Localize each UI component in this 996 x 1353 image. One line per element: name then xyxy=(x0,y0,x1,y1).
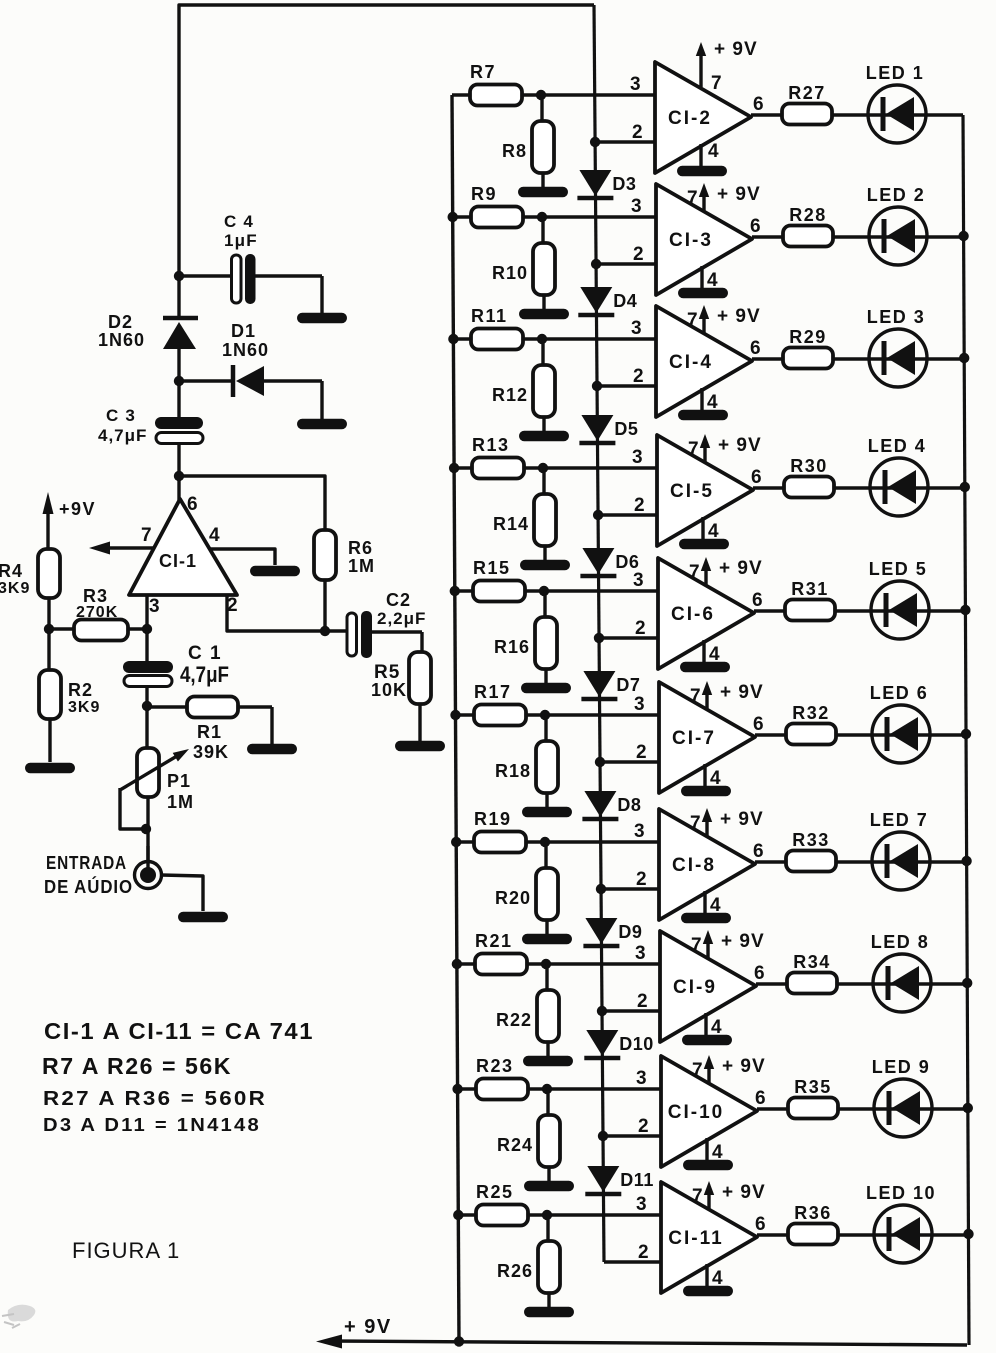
svg-text:R27 A R36 = 560R: R27 A R36 = 560R xyxy=(43,1088,267,1110)
CI-5 pin labels xyxy=(632,439,762,542)
svg-text:6: 6 xyxy=(755,1088,766,1109)
svg-text:7: 7 xyxy=(141,525,152,546)
CI-4 pin labels xyxy=(631,310,761,413)
ground (CI-11 pin 4) xyxy=(683,1286,733,1297)
svg-text:+ 9V: + 9V xyxy=(717,306,761,327)
ground (CI-8 pin 4) xyxy=(681,913,731,924)
CI-1 pin 7 arrow wire xyxy=(89,542,154,555)
resistor R22 xyxy=(496,964,559,1057)
node: R6 / pin2 junction xyxy=(320,626,330,636)
LED D6 LED 6 xyxy=(870,683,930,763)
svg-text:1M: 1M xyxy=(167,792,194,812)
svg-text:7: 7 xyxy=(687,188,698,209)
wire: output net row 10 xyxy=(757,1233,969,1236)
wire xyxy=(177,276,180,316)
ground (CI-6 pin 4) xyxy=(680,662,730,673)
wire: output net row 4 xyxy=(753,486,965,489)
svg-text:R14: R14 xyxy=(493,514,529,534)
wire: diode chain line xyxy=(594,5,604,1262)
diode D11 xyxy=(585,1166,654,1194)
wire: pin 2 net row 1 xyxy=(595,140,655,143)
svg-text:+ 9V: + 9V xyxy=(719,558,763,579)
node: right bus junction row 4 xyxy=(960,482,970,492)
wire: pin 4 stem row 2 xyxy=(700,266,703,288)
+9V arrow (pin 7) row 4 xyxy=(700,434,762,463)
LED D2 LED 2 xyxy=(867,185,927,265)
LED D4 LED 4 xyxy=(868,436,928,516)
svg-text:+ 9V: + 9V xyxy=(720,682,764,703)
node: bus tap row 3 xyxy=(448,334,458,344)
svg-text:3K9: 3K9 xyxy=(68,699,100,716)
svg-text:10K: 10K xyxy=(371,680,407,700)
node: chain junction row 4 xyxy=(593,510,603,520)
svg-text:R15: R15 xyxy=(473,558,511,578)
LED D10 LED 10 xyxy=(866,1183,936,1263)
ground (R16) xyxy=(521,683,571,694)
CI-3 pin labels xyxy=(631,188,761,291)
node: divider tap row 2 xyxy=(537,212,547,222)
ground (R24) xyxy=(524,1181,574,1192)
op-amp U4 CI-4 xyxy=(656,306,752,417)
CI-1 pin labels xyxy=(141,494,238,617)
svg-text:R7 A R26 = 56K: R7 A R26 = 56K xyxy=(42,1053,232,1079)
svg-text:D9: D9 xyxy=(618,922,642,942)
svg-text:R18: R18 xyxy=(495,761,531,781)
wire: pin 3 net row 10 xyxy=(458,1213,661,1216)
resistor R33 xyxy=(786,830,836,872)
svg-text:+ 9V: + 9V xyxy=(722,1056,766,1077)
svg-text:2: 2 xyxy=(638,1116,649,1137)
ground (D1) xyxy=(297,419,347,430)
wire: pin 4 stem row 8 xyxy=(704,1013,707,1035)
svg-text:R11: R11 xyxy=(471,306,508,326)
svg-text:1μF: 1μF xyxy=(224,231,258,250)
op-amp U7 CI-7 xyxy=(659,682,755,793)
node: chain junction row 9 xyxy=(598,1131,608,1141)
wire: pin 4 stem row 3 xyxy=(700,388,703,410)
svg-text:2: 2 xyxy=(636,869,647,890)
svg-text:1M: 1M xyxy=(348,556,375,576)
wire xyxy=(177,349,180,381)
op-amp U1 CI-1 xyxy=(129,499,237,595)
node: chain junction row 5 xyxy=(594,633,604,643)
ground (CI-2 pin 4) xyxy=(677,166,727,177)
svg-text:3: 3 xyxy=(635,943,646,964)
resistor R9 xyxy=(471,184,523,228)
svg-text:R34: R34 xyxy=(793,952,831,972)
svg-text:R21: R21 xyxy=(475,931,513,951)
wire: pin 2 net row 5 xyxy=(599,636,658,639)
svg-text:3: 3 xyxy=(633,570,644,591)
CI-8 pin labels xyxy=(634,813,764,916)
resistor R10 xyxy=(492,217,555,310)
diode D10 xyxy=(584,1030,654,1058)
svg-text:6: 6 xyxy=(750,216,761,237)
resistor R2 xyxy=(39,629,100,762)
svg-text:R25: R25 xyxy=(476,1182,514,1202)
resistor R4 xyxy=(0,549,60,629)
svg-text:6: 6 xyxy=(754,963,765,984)
wire: pin 2 net row 9 xyxy=(603,1134,661,1137)
svg-text:7: 7 xyxy=(690,813,701,834)
wire: feedback to R6 xyxy=(179,476,325,531)
svg-text:7: 7 xyxy=(692,1186,703,1207)
resistor R13 xyxy=(472,435,524,479)
resistor R1 xyxy=(147,697,272,763)
diode D8 xyxy=(582,791,641,819)
node: right bus junction row 8 xyxy=(962,978,972,988)
svg-text:2: 2 xyxy=(633,244,644,265)
ground (CI-7 pin 4) xyxy=(681,786,731,797)
svg-text:CI-6: CI-6 xyxy=(671,604,715,625)
wire: pin 4 stem row 5 xyxy=(702,640,705,662)
wire: pin 2 net row 8 xyxy=(602,1009,660,1012)
wire: pin 3 net row 2 xyxy=(453,215,656,218)
node: C1/R1/P1 junction xyxy=(142,701,152,711)
node: divider tap row 4 xyxy=(538,463,548,473)
svg-text:R17: R17 xyxy=(474,682,512,702)
svg-text:R3: R3 xyxy=(83,586,108,606)
resistor R36 xyxy=(788,1203,838,1245)
wire: jack to ground xyxy=(161,875,203,911)
svg-text:4: 4 xyxy=(708,141,719,162)
resistor R28 xyxy=(783,205,833,247)
wire: output net row 6 xyxy=(755,733,966,736)
resistor R34 xyxy=(787,952,837,994)
diode D6 xyxy=(580,548,639,576)
resistor R16 xyxy=(494,591,557,684)
svg-text:CI-11: CI-11 xyxy=(668,1228,723,1249)
diode D2 xyxy=(98,312,198,350)
+9V arrow (pin 7) row 3 xyxy=(699,305,761,334)
LED D1 LED 1 xyxy=(866,63,926,143)
svg-text:7: 7 xyxy=(691,935,702,956)
ground (R14) xyxy=(520,560,570,571)
svg-text:CI-9: CI-9 xyxy=(673,977,717,998)
wire: pin 2 net row 4 xyxy=(598,513,657,516)
ground (R5) xyxy=(395,741,445,752)
node: bus tap row 10 xyxy=(453,1210,463,1220)
wire: pin 3 net row 4 xyxy=(454,466,657,469)
LED D5 LED 5 xyxy=(869,559,929,639)
svg-text:D8: D8 xyxy=(617,795,641,815)
ground (R2) xyxy=(25,763,75,774)
node: right bus junction row 10 xyxy=(963,1229,973,1239)
svg-text:R8: R8 xyxy=(502,141,527,161)
wire: pin 4 stem row 7 xyxy=(703,891,706,913)
node: divider tap row 3 xyxy=(537,334,547,344)
op-amp U6 CI-6 xyxy=(658,558,754,669)
svg-text:R27: R27 xyxy=(788,83,826,103)
resistor R32 xyxy=(786,703,836,745)
svg-text:R13: R13 xyxy=(472,435,510,455)
ground (CI-3 pin 4) xyxy=(678,288,728,299)
svg-text:FIGURA 1: FIGURA 1 xyxy=(72,1238,180,1263)
wire: pin 2 net row 2 xyxy=(596,262,656,265)
wire: CI-1 pin 4 xyxy=(210,549,275,565)
wire: pin 3 net row 5 xyxy=(455,589,658,592)
node: right bus junction row 5 xyxy=(960,605,970,615)
svg-text:R12: R12 xyxy=(492,385,528,405)
svg-text:LED 5: LED 5 xyxy=(869,559,928,579)
svg-text:6: 6 xyxy=(753,94,764,115)
wire: pin 4 stem row 1 xyxy=(699,144,702,166)
svg-text:R32: R32 xyxy=(792,703,830,723)
node: divider tap row 10 xyxy=(542,1210,552,1220)
svg-text:CI-1 A CI-11 = CA 741: CI-1 A CI-11 = CA 741 xyxy=(44,1018,314,1044)
wire: CI-1 pin 2 stem xyxy=(227,595,347,631)
CI-6 pin labels xyxy=(633,562,763,665)
svg-text:7: 7 xyxy=(711,73,722,94)
node: divider tap row 7 xyxy=(540,837,550,847)
svg-text:3: 3 xyxy=(149,596,160,617)
svg-text:R29: R29 xyxy=(789,327,827,347)
op-amp U11 CI-11 xyxy=(661,1182,757,1293)
CI-10 pin labels xyxy=(636,1060,766,1163)
resistor R27 xyxy=(782,83,832,125)
svg-text:R22: R22 xyxy=(496,1010,532,1030)
wire: output net row 8 xyxy=(756,982,967,985)
diode D7 xyxy=(581,671,640,699)
wire: CI-1 pin 3 stem xyxy=(145,595,148,629)
op-amp U2 CI-2 xyxy=(655,62,751,173)
svg-text:2: 2 xyxy=(227,595,238,616)
svg-text:C2: C2 xyxy=(386,590,411,610)
+9V bottom arrow xyxy=(316,1316,392,1349)
node: chain junction row 8 xyxy=(597,1006,607,1016)
node: P1 wiper junction xyxy=(141,824,151,834)
diode D3 xyxy=(577,170,636,198)
resistor R7 xyxy=(470,62,522,106)
wire: bottom +9V rail xyxy=(330,1341,967,1345)
wire: output net row 3 xyxy=(752,357,964,360)
LED D8 LED 8 xyxy=(871,932,931,1012)
ground (CI-5 pin 4) xyxy=(679,539,729,550)
svg-text:CI-3: CI-3 xyxy=(669,230,713,251)
node: C4 branch junction xyxy=(174,271,184,281)
ground (CI-4 pin 4) xyxy=(678,410,728,421)
svg-text:1N60: 1N60 xyxy=(98,330,145,350)
svg-text:+ 9V: + 9V xyxy=(722,1182,766,1203)
svg-text:3: 3 xyxy=(630,74,641,95)
node: chain junction row 2 xyxy=(591,259,601,269)
svg-text:ENTRADA: ENTRADA xyxy=(46,853,127,873)
svg-text:CI-5: CI-5 xyxy=(670,481,714,502)
wire: output net row 2 xyxy=(752,235,964,238)
ground (CI-10 pin 4) xyxy=(683,1160,733,1171)
node: D1 branch junction xyxy=(174,376,184,386)
potentiometer P1 xyxy=(120,706,194,862)
node: chain junction row 3 xyxy=(592,381,602,391)
wire: LED return bus (right) xyxy=(963,115,969,1345)
ground (R20) xyxy=(522,934,572,945)
svg-text:R30: R30 xyxy=(790,456,828,476)
svg-text:270K: 270K xyxy=(76,604,118,621)
svg-text:C 4: C 4 xyxy=(224,212,254,231)
svg-text:3: 3 xyxy=(632,447,643,468)
node: right bus junction row 3 xyxy=(959,353,969,363)
resistor R30 xyxy=(784,456,834,498)
svg-text:7: 7 xyxy=(687,310,698,331)
wire: pin 2 net row 6 xyxy=(600,760,659,763)
wire: output net row 5 xyxy=(754,609,965,612)
svg-text:R26: R26 xyxy=(497,1261,533,1281)
svg-text:R24: R24 xyxy=(497,1135,533,1155)
capacitor C4 xyxy=(179,212,322,313)
svg-text:CI-1: CI-1 xyxy=(159,551,197,571)
resistor R18 xyxy=(495,715,558,808)
svg-text:4,7μF: 4,7μF xyxy=(98,426,147,445)
node: pin3 junction xyxy=(142,624,152,634)
ground (R26) xyxy=(524,1307,574,1318)
resistor R8 xyxy=(502,95,554,188)
node: divider tap row 8 xyxy=(541,959,551,969)
op-amp U10 CI-10 xyxy=(661,1056,757,1167)
svg-text:39K: 39K xyxy=(193,742,229,762)
svg-text:C 1: C 1 xyxy=(188,643,222,664)
node: CI-1 output junction xyxy=(174,471,184,481)
resistor R17 xyxy=(474,682,526,726)
svg-text:LED 8: LED 8 xyxy=(871,932,930,952)
op-amp U5 CI-5 xyxy=(657,435,753,546)
resistor R12 xyxy=(492,339,555,432)
svg-text:LED 7: LED 7 xyxy=(870,810,929,830)
input jack ENTRADA DE AUDIO xyxy=(44,846,162,897)
svg-text:+ 9V: + 9V xyxy=(721,931,765,952)
svg-text:C 3: C 3 xyxy=(106,406,136,425)
svg-text:D3: D3 xyxy=(612,174,636,194)
+9V arrow (pin 7) row 1 xyxy=(696,39,758,87)
resistor R11 xyxy=(471,306,523,350)
resistor R5 xyxy=(371,652,431,741)
svg-text:6: 6 xyxy=(752,590,763,611)
resistor R35 xyxy=(788,1077,838,1119)
svg-text:2: 2 xyxy=(636,742,647,763)
node: chain junction row 1 xyxy=(590,137,600,147)
wire: output net row 7 xyxy=(755,860,967,863)
wire: pin 2 net row 10 xyxy=(604,1260,661,1263)
+9V arrow (pin 7) row 5 xyxy=(701,557,763,586)
svg-text:D5: D5 xyxy=(614,419,638,439)
wire: pin 3 net row 7 xyxy=(456,840,659,843)
+9V arrow (pin 7) row 10 xyxy=(704,1181,766,1210)
resistor R15 xyxy=(473,558,525,602)
svg-text:2: 2 xyxy=(633,366,644,387)
svg-text:R33: R33 xyxy=(792,830,830,850)
svg-text:R4: R4 xyxy=(0,561,23,581)
svg-text:LED 3: LED 3 xyxy=(867,307,926,327)
svg-text:LED 1: LED 1 xyxy=(866,63,925,83)
svg-text:6: 6 xyxy=(187,494,198,515)
svg-text:+ 9V: + 9V xyxy=(717,184,761,205)
svg-text:R19: R19 xyxy=(474,809,512,829)
svg-text:D2: D2 xyxy=(108,312,133,332)
svg-text:3: 3 xyxy=(634,821,645,842)
svg-text:D6: D6 xyxy=(615,552,639,572)
node: bus tap row 7 xyxy=(451,837,461,847)
svg-text:LED 9: LED 9 xyxy=(872,1057,931,1077)
node: bus tap row 9 xyxy=(452,1084,462,1094)
+9V arrow (pin 7) row 7 xyxy=(702,808,764,837)
node: bus tap row 5 xyxy=(450,586,460,596)
svg-text:LED 2: LED 2 xyxy=(867,185,926,205)
node: bus tap row 8 xyxy=(452,959,462,969)
capacitor C1 xyxy=(123,629,229,706)
svg-text:3: 3 xyxy=(631,196,642,217)
+9V arrow (pin 7) row 9 xyxy=(704,1055,766,1084)
wire: pin 2 net row 3 xyxy=(597,384,656,387)
node: divider tap row 6 xyxy=(540,710,550,720)
ground (R18) xyxy=(522,807,572,818)
CI-2 pin labels xyxy=(630,73,764,162)
svg-text:R7: R7 xyxy=(470,62,496,82)
svg-text:CI-4: CI-4 xyxy=(669,352,713,373)
svg-text:6: 6 xyxy=(750,338,761,359)
diode D4 xyxy=(578,287,637,315)
resistor R19 xyxy=(474,809,526,853)
node: bus tap row 2 xyxy=(448,212,458,222)
svg-text:+ 9V: + 9V xyxy=(714,39,758,60)
wire: pin 4 stem row 4 xyxy=(701,517,704,539)
ground (C4) xyxy=(297,313,347,324)
wire xyxy=(177,381,180,417)
svg-text:6: 6 xyxy=(755,1214,766,1235)
node: divider tap row 9 xyxy=(542,1084,552,1094)
resistor R23 xyxy=(476,1056,528,1100)
svg-text:6: 6 xyxy=(753,714,764,735)
wire: pin 4 stem row 9 xyxy=(705,1138,708,1160)
svg-text:+9V: +9V xyxy=(59,499,96,519)
svg-text:D11: D11 xyxy=(620,1170,654,1190)
op-amp U3 CI-3 xyxy=(656,184,752,295)
svg-text:3: 3 xyxy=(634,694,645,715)
+9V arrow (pin 7) row 6 xyxy=(702,681,764,710)
wire: +9V ladder bus (left) xyxy=(452,95,459,1342)
diode D5 xyxy=(579,415,638,443)
ground (R1) xyxy=(247,744,297,755)
resistor R31 xyxy=(785,579,835,621)
+9V arrow (pin 7) row 2 xyxy=(699,183,761,212)
node: chain junction row 7 xyxy=(596,884,606,894)
wire: pin 3 net row 6 xyxy=(456,713,660,716)
svg-text:2: 2 xyxy=(635,618,646,639)
node: right bus junction row 7 xyxy=(961,856,971,866)
svg-text:4,7μF: 4,7μF xyxy=(180,662,229,687)
+9V supply arrow (R4) xyxy=(43,492,97,549)
node: bus tap row 4 xyxy=(449,463,459,473)
resistor R25 xyxy=(476,1182,528,1226)
svg-text:R28: R28 xyxy=(789,205,827,225)
wire: output net row 1 xyxy=(751,113,963,116)
resistor R20 xyxy=(495,842,558,935)
svg-text:6: 6 xyxy=(753,841,764,862)
wire: pin 3 net row 3 xyxy=(453,337,656,340)
svg-text:CI-10: CI-10 xyxy=(668,1102,724,1123)
svg-text:CI-8: CI-8 xyxy=(672,855,716,876)
svg-text:D3 A D11 = 1N4148: D3 A D11 = 1N4148 xyxy=(43,1115,261,1135)
wire: output net row 9 xyxy=(757,1107,968,1110)
svg-text:+ 9V: + 9V xyxy=(718,435,762,456)
svg-text:R31: R31 xyxy=(791,579,829,599)
svg-text:D1: D1 xyxy=(231,321,256,341)
svg-text:R6: R6 xyxy=(348,538,373,558)
svg-text:7: 7 xyxy=(690,686,701,707)
CI-11 pin labels xyxy=(636,1186,766,1289)
wire xyxy=(177,443,180,500)
wire: pin 4 stem row 6 xyxy=(703,764,706,786)
svg-text:R16: R16 xyxy=(494,637,530,657)
scan smudge xyxy=(8,1305,36,1322)
